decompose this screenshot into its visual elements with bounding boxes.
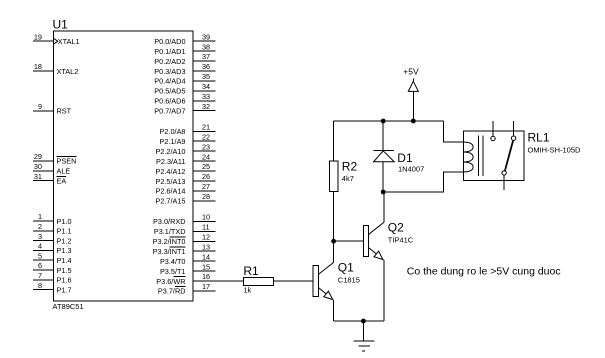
ground: [353, 321, 374, 351]
U1 pin 28 P2.7/A15: [155, 192, 215, 206]
svg-text:8: 8: [38, 281, 42, 290]
svg-text:ALE: ALE: [57, 167, 71, 176]
RL1 core lines: [479, 136, 483, 176]
svg-text:P1.4: P1.4: [57, 256, 72, 265]
U1 pin 3 P1.2: [33, 232, 72, 246]
U1 pin 31 EA: [33, 172, 67, 186]
svg-text:P1.6: P1.6: [57, 276, 72, 285]
Q2 reference label: [388, 220, 404, 234]
RL1 switch NO contact stub: [511, 121, 515, 140]
relay RL1 box: [463, 131, 524, 181]
wire from R1 to Q1 base: [274, 280, 314, 282]
svg-text:R1: R1: [243, 264, 259, 278]
U1 pin 35 P0.4/AD4: [154, 72, 215, 86]
wire R2/Q1 collector node to Q2 base: [334, 240, 364, 242]
note text: [407, 265, 561, 277]
wire +5V horizontal rail: [334, 120, 444, 122]
svg-text:22: 22: [202, 132, 210, 141]
U1 pin 13 P3.3/INT1: [153, 242, 216, 256]
svg-text:6: 6: [38, 261, 42, 270]
IC U1 AT89C51 body: [54, 31, 194, 301]
U1 pin 33 P0.6/AD6: [154, 92, 215, 106]
svg-text:AT89C51: AT89C51: [53, 302, 84, 311]
U1 pin 18 XTAL2: [33, 62, 78, 76]
wire R2 bottom to Q2 base node: [333, 192, 335, 242]
svg-text:XTAL1: XTAL1: [58, 37, 80, 46]
svg-text:Q2: Q2: [388, 220, 404, 234]
U1 pin 15 P3.5/T1: [160, 262, 216, 276]
svg-text:P1.0: P1.0: [57, 217, 72, 226]
svg-text:P3.0/RXD: P3.0/RXD: [153, 217, 185, 226]
svg-text:P3.7/RD: P3.7/RD: [158, 287, 186, 296]
svg-text:P2.1/A9: P2.1/A9: [160, 137, 186, 146]
RL1 reference label: [528, 131, 550, 145]
svg-text:PSEN: PSEN: [57, 157, 77, 166]
svg-text:35: 35: [202, 72, 210, 81]
svg-text:P0.1/AD1: P0.1/AD1: [154, 47, 185, 56]
svg-text:P1.2: P1.2: [57, 236, 72, 245]
RL1 value label OMIH-SH-105D: [528, 146, 582, 155]
svg-text:23: 23: [202, 142, 210, 151]
svg-text:3: 3: [38, 232, 42, 241]
svg-text:27: 27: [202, 182, 210, 191]
svg-text:R2: R2: [342, 160, 358, 174]
U1 pin 8 P1.7: [33, 281, 72, 295]
svg-text:P2.3/A11: P2.3/A11: [156, 157, 185, 166]
U1 reference label: [53, 18, 69, 32]
wire D1 anode to bottom node: [382, 162, 384, 192]
svg-text:10: 10: [202, 213, 210, 222]
resistor R2: [330, 161, 338, 192]
U1 pin 9 RST: [33, 102, 72, 116]
node junction dot at Q2 base / R2 bottom / Q1 collector: [331, 239, 336, 244]
wire from U1 pin 16 to R1: [216, 280, 244, 282]
U1 pin 1 P1.0: [33, 212, 72, 226]
svg-text:XTAL2: XTAL2: [57, 67, 79, 76]
R2 value label 4k7: [342, 174, 354, 183]
RL1 switch common contact stub: [491, 121, 495, 141]
wire Q2 emitter to ground rail: [383, 260, 385, 321]
svg-text:25: 25: [202, 162, 210, 171]
svg-text:21: 21: [202, 123, 210, 132]
wire rail right end down to relay coil top: [444, 121, 464, 142]
svg-text:C1815: C1815: [338, 276, 360, 285]
svg-text:39: 39: [202, 32, 210, 41]
svg-text:Q1: Q1: [338, 260, 354, 274]
U1 pin 12 P3.2/INT0: [153, 233, 216, 247]
svg-text:P2.0/A8: P2.0/A8: [160, 127, 186, 136]
wire bottom node to relay coil bottom: [383, 172, 463, 192]
svg-text:5: 5: [38, 251, 42, 260]
svg-text:17: 17: [202, 282, 210, 291]
wire emitter ground rail: [334, 320, 384, 322]
svg-text:14: 14: [202, 252, 210, 261]
R1 reference label: [243, 264, 259, 278]
RL1 switch lever: [505, 141, 513, 171]
svg-text:32: 32: [202, 102, 210, 111]
U1 pin 37 P0.2/AD2: [154, 52, 215, 66]
svg-text:P2.5/A13: P2.5/A13: [155, 177, 185, 186]
D1 value label 1N4007: [398, 165, 424, 174]
svg-text:34: 34: [202, 82, 210, 91]
U1 pin 21 P2.0/A8: [160, 123, 216, 137]
U1 pin 26 P2.5/A13: [155, 172, 215, 186]
Q1 value label C1815: [338, 276, 360, 285]
svg-text:P0.4/AD4: P0.4/AD4: [154, 77, 185, 86]
svg-text:P0.7/AD7: P0.7/AD7: [154, 107, 185, 116]
svg-text:28: 28: [202, 192, 210, 201]
svg-text:33: 33: [202, 92, 210, 101]
svg-text:P1.3: P1.3: [57, 246, 72, 255]
U1 pin 25 P2.4/A12: [155, 162, 215, 176]
Q2 value label TIP41C: [388, 236, 414, 245]
node junction dot on ground rail: [361, 319, 366, 324]
U1 pin 23 P2.2/A10: [155, 142, 215, 156]
U1 pin 29 PSEN: [33, 152, 77, 166]
svg-text:26: 26: [202, 172, 210, 181]
RL1 coil: [463, 142, 473, 172]
svg-text:11: 11: [202, 223, 210, 232]
U1 pin 17 P3.7/RD: [158, 282, 216, 296]
svg-text:2: 2: [38, 222, 42, 231]
svg-text:15: 15: [202, 262, 210, 271]
U1 pin 27 P2.6/A14: [155, 182, 215, 196]
svg-text:P3.2/INT0: P3.2/INT0: [153, 237, 186, 246]
svg-text:24: 24: [202, 152, 210, 161]
svg-text:1k: 1k: [243, 285, 251, 294]
U1 pin 32 P0.7/AD7: [154, 102, 215, 116]
svg-text:19: 19: [34, 32, 42, 41]
U1 pin 2 P1.1: [33, 222, 72, 236]
U1 pin 24 P2.3/A11: [156, 152, 215, 166]
U1 pin 10 P3.0/RXD: [153, 213, 215, 227]
svg-text:P3.1/TXD: P3.1/TXD: [154, 227, 186, 236]
U1 pin 34 P0.5/AD5: [154, 82, 215, 96]
svg-text:1N4007: 1N4007: [398, 165, 424, 174]
svg-text:P3.6/WR: P3.6/WR: [156, 277, 185, 286]
svg-text:30: 30: [34, 162, 42, 171]
node junction dot +5V on rail: [411, 119, 416, 124]
svg-text:P3.3/INT1: P3.3/INT1: [153, 247, 186, 256]
svg-text:P2.2/A10: P2.2/A10: [155, 147, 185, 156]
wire Q1 emitter to ground rail: [333, 300, 335, 321]
svg-text:16: 16: [202, 272, 210, 281]
svg-text:OMIH-SH-105D: OMIH-SH-105D: [528, 146, 582, 155]
svg-text:31: 31: [34, 172, 42, 181]
U1 pin 14 P3.4/T0: [160, 252, 216, 266]
svg-text:+5V: +5V: [403, 67, 419, 77]
wire rail to D1 cathode: [382, 121, 384, 150]
U1 pin 36 P0.3/AD3: [154, 62, 215, 76]
svg-text:7: 7: [38, 271, 42, 280]
Q1 reference label: [338, 260, 354, 274]
node junction dot D1 top on rail: [381, 119, 386, 124]
svg-text:1: 1: [38, 212, 42, 221]
svg-text:29: 29: [34, 152, 42, 161]
svg-text:9: 9: [38, 102, 42, 111]
U1 pin 38 P0.1/AD1: [154, 42, 215, 56]
svg-text:U1: U1: [53, 18, 69, 32]
svg-text:P0.3/AD3: P0.3/AD3: [154, 67, 185, 76]
svg-text:18: 18: [34, 62, 42, 71]
power symbol +5V: [403, 67, 419, 122]
transistor Q2: [363, 191, 383, 259]
R2 reference label: [342, 160, 358, 174]
svg-text:P0.2/AD2: P0.2/AD2: [154, 57, 185, 66]
wire +5V rail to R2 top: [333, 121, 335, 161]
svg-text:D1: D1: [397, 151, 413, 165]
U1 pin 16 P3.6/WR: [156, 272, 215, 286]
U1 pin 39 P0.0/AD0: [154, 32, 215, 46]
svg-text:TIP41C: TIP41C: [388, 236, 414, 245]
U1 pin 19 XTAL1: [33, 32, 80, 46]
svg-text:P1.5: P1.5: [57, 266, 72, 275]
U1 pin 11 P3.1/TXD: [154, 223, 216, 237]
U1 pin 7 P1.6: [33, 271, 72, 285]
D1 reference label: [397, 151, 413, 165]
U1 value label AT89C51: [53, 302, 84, 311]
RL1 switch pole bottom stub: [502, 171, 506, 191]
diode D1: [374, 150, 395, 162]
svg-text:13: 13: [202, 242, 210, 251]
resistor R1: [244, 277, 274, 285]
transistor Q1: [313, 231, 333, 299]
svg-text:P0.6/AD6: P0.6/AD6: [154, 97, 185, 106]
svg-text:P2.4/A12: P2.4/A12: [155, 167, 185, 176]
U1 pin 22 P2.1/A9: [160, 132, 216, 146]
node junction dot D1 anode / Q2 collector: [381, 190, 386, 195]
svg-text:12: 12: [202, 233, 210, 242]
svg-text:37: 37: [202, 52, 210, 61]
svg-text:RL1: RL1: [528, 131, 550, 145]
svg-text:P2.6/A14: P2.6/A14: [155, 187, 185, 196]
svg-text:EA: EA: [57, 177, 67, 186]
svg-text:4: 4: [38, 242, 42, 251]
svg-text:38: 38: [202, 42, 210, 51]
svg-text:P1.1: P1.1: [57, 227, 72, 236]
svg-text:P2.7/A15: P2.7/A15: [155, 197, 185, 206]
svg-text:Co the dung ro le >5V cung duo: Co the dung ro le >5V cung duoc: [407, 265, 561, 277]
svg-text:36: 36: [202, 62, 210, 71]
svg-text:P1.7: P1.7: [57, 285, 72, 294]
U1 pin 30 ALE: [33, 162, 71, 176]
U1 pin 4 P1.3: [33, 242, 72, 256]
R1 value label 1k: [243, 285, 251, 294]
svg-text:P3.4/T0: P3.4/T0: [160, 257, 186, 266]
svg-text:P0.0/AD0: P0.0/AD0: [154, 37, 185, 46]
svg-text:P3.5/T1: P3.5/T1: [160, 267, 186, 276]
U1 pin 5 P1.4: [33, 251, 72, 265]
svg-text:4k7: 4k7: [342, 174, 354, 183]
U1 pin 6 P1.5: [33, 261, 72, 275]
svg-text:RST: RST: [57, 107, 72, 116]
svg-text:P0.5/AD5: P0.5/AD5: [154, 87, 185, 96]
